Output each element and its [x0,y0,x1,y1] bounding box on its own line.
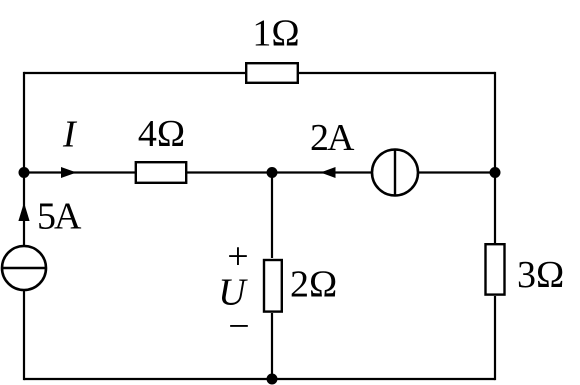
node right (junction of 2A source and 3ohm branch) [490,167,501,178]
wire middle vertical: 2ohm to bottom node [271,313,273,379]
wire bottom horizontal [24,378,495,380]
wire middle horizontal: node to 4ohm [24,171,135,173]
resistor 1ohm body [246,63,298,83]
label 5A [37,196,82,238]
svg-text:3Ω: 3Ω [517,254,564,296]
label 2ohm [290,264,337,306]
svg-text:5A: 5A [37,196,82,238]
label U plus sign [227,236,248,278]
wire top-left horizontal segment [24,72,245,74]
node bottom (junction of 2ohm branch and bottom wire) [267,374,278,385]
current source 2A circle [372,150,418,196]
wire top-right horizontal segment [299,72,495,74]
svg-text:2A: 2A [310,117,355,159]
svg-text:I: I [62,114,78,156]
arrow current I (right) [61,167,77,178]
wire right vertical upper segment [494,72,496,243]
arrow 2A current direction (left) [321,167,336,178]
svg-text:2Ω: 2Ω [290,264,337,306]
label 3ohm [517,254,564,296]
label U (voltage) [218,272,248,314]
wire middle vertical: node to 2ohm [271,173,273,259]
svg-text:−: − [228,306,249,348]
current source 5A circle [2,246,46,290]
arrow 5A current direction (up) [18,203,29,222]
label 1ohm [252,13,299,55]
wire left vertical upper segment [23,72,25,246]
svg-text:4Ω: 4Ω [138,113,185,155]
node middle (junction of 4ohm, 2A, 2ohm branches) [267,167,278,178]
resistor 3ohm body [486,244,505,294]
svg-text:1Ω: 1Ω [252,13,299,55]
wire middle horizontal: 4ohm to 2A source [187,171,372,173]
label 2A [310,117,355,159]
node left (junction of 5A branch and middle wire) [19,167,30,178]
wire right vertical lower segment [494,296,496,380]
resistor 2ohm body [264,260,282,312]
resistor 4ohm body [136,162,186,183]
label 4ohm [138,113,185,155]
wire left vertical lower segment [23,290,25,380]
label I [62,114,78,156]
label U minus sign [228,306,249,348]
wire middle horizontal: 2A source to right node [418,171,495,173]
